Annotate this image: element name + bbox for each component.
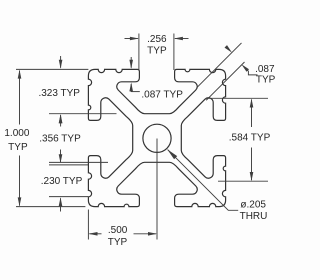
svg-text:.087 TYP: .087 TYP bbox=[141, 90, 183, 101]
svg-text:.356 TYP: .356 TYP bbox=[39, 134, 81, 145]
center thru-hole bbox=[143, 124, 171, 152]
svg-text:TYP: TYP bbox=[8, 142, 28, 153]
dim .256 TYP top bbox=[138, 34, 140, 71]
svg-text:TYP: TYP bbox=[147, 45, 167, 56]
dim .323 TYP bbox=[16, 68, 88, 70]
svg-text:THRU: THRU bbox=[240, 211, 268, 222]
extrusion profile cross-section bbox=[88, 69, 225, 206]
svg-text:.256: .256 bbox=[147, 34, 167, 45]
leader dia .205 THRU bbox=[167, 149, 177, 159]
dim .087 TYP web (top right) bbox=[197, 43, 242, 88]
dim .230 TYP bbox=[49, 164, 88, 166]
svg-text:ø.205: ø.205 bbox=[240, 199, 266, 210]
dim .356 TYP bbox=[49, 161, 108, 163]
svg-text:.087: .087 bbox=[255, 64, 275, 75]
dim 1.000 TYP overall bbox=[16, 206, 85, 208]
svg-text:.584 TYP: .584 TYP bbox=[229, 132, 271, 143]
dim .584 TYP bbox=[208, 97, 269, 99]
svg-text:TYP: TYP bbox=[256, 75, 276, 86]
centerline bbox=[156, 139, 158, 240]
dim .087 TYP wall (center) bbox=[130, 57, 132, 68]
svg-text:1.000: 1.000 bbox=[4, 128, 29, 139]
svg-text:.500: .500 bbox=[108, 225, 128, 236]
dim .500 TYP bbox=[87, 210, 89, 240]
svg-text:.323 TYP: .323 TYP bbox=[38, 88, 80, 99]
svg-text:.230 TYP: .230 TYP bbox=[41, 176, 83, 187]
svg-text:TYP: TYP bbox=[108, 237, 128, 248]
